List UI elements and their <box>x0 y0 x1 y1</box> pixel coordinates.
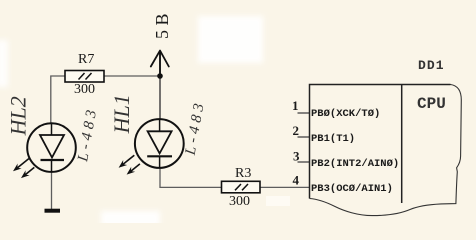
wire HL2 bottom to ground <box>51 172 53 210</box>
resistor R3 <box>222 181 261 193</box>
ground <box>45 209 61 213</box>
IC DD1 box <box>310 85 451 204</box>
wire R7 right to 5V line junction <box>104 75 160 77</box>
svg-text:300: 300 <box>229 194 250 209</box>
svg-text:PB2(INT2/AINØ): PB2(INT2/AINØ) <box>311 158 399 170</box>
wire HL1 bottom to R3 <box>160 168 222 188</box>
svg-text:4: 4 <box>293 173 300 188</box>
resistor R7 <box>65 71 104 83</box>
svg-text:DD1: DD1 <box>418 58 445 73</box>
LED HL2 <box>27 123 76 172</box>
IC torn edge <box>310 85 462 216</box>
svg-text:1: 1 <box>292 98 299 113</box>
power symbol 5 V arrow <box>151 51 169 76</box>
svg-text:3: 3 <box>293 149 300 164</box>
junction dot <box>157 73 163 79</box>
wire 5V line down to HL1 top <box>159 53 161 120</box>
svg-text:2: 2 <box>293 123 300 138</box>
svg-text:300: 300 <box>74 82 95 97</box>
LED HL1 <box>135 119 184 168</box>
HL1 emission arrows <box>119 155 140 174</box>
svg-text:PBØ(XCK/TØ): PBØ(XCK/TØ) <box>311 108 380 120</box>
HL2 emission arrows <box>13 159 34 179</box>
svg-text:PB1(T1): PB1(T1) <box>311 133 355 145</box>
pin 1 stub <box>298 112 310 114</box>
wire R7 left to HL2 top <box>51 76 65 124</box>
svg-text:HL1: HL1 <box>109 94 134 134</box>
svg-text:R7: R7 <box>78 52 94 67</box>
svg-text:CPU: CPU <box>417 95 446 113</box>
wire R3 to pin 4 <box>260 186 310 188</box>
svg-text:5 В: 5 В <box>152 13 172 39</box>
svg-text:HL2: HL2 <box>5 96 30 136</box>
svg-text:R3: R3 <box>235 166 251 181</box>
svg-text:PB3(OCØ/AIN1): PB3(OCØ/AIN1) <box>311 183 393 195</box>
pin 2 stub <box>298 136 310 138</box>
pin 3 stub <box>298 161 310 163</box>
